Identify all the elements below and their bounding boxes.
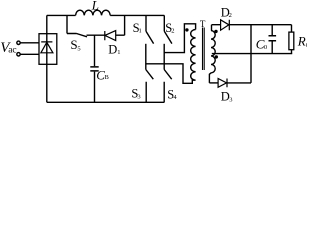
wire D1 to rail [116, 15, 125, 35]
wire C0 bottom lead [271, 41, 273, 53]
svg-text:2: 2 [171, 28, 174, 35]
wire top rail right [110, 14, 164, 16]
svg-text:3: 3 [137, 93, 140, 100]
svg-text:0: 0 [306, 42, 307, 49]
wire ac top [20, 42, 39, 44]
transformer core [203, 28, 205, 71]
switch S5 [67, 15, 87, 36]
wire bottom rail [47, 101, 165, 103]
wire Cb top lead [94, 35, 96, 66]
svg-text:1: 1 [139, 28, 142, 35]
bridge diode [41, 42, 53, 53]
svg-text:B: B [105, 74, 110, 81]
switch S4 [164, 70, 172, 103]
wire R0 top lead [291, 25, 293, 32]
wire node P to primary bottom [146, 64, 193, 84]
terminal top [17, 41, 20, 44]
wire node Q to primary top [164, 24, 195, 53]
svg-text:L: L [91, 0, 99, 13]
svg-text:T: T [200, 19, 206, 29]
switch S2 [164, 15, 172, 43]
diode D2 [221, 20, 230, 30]
svg-text:ac: ac [8, 46, 16, 56]
wire C0 top lead [271, 25, 273, 36]
diode D1 [105, 31, 116, 41]
transformer primary winding [191, 30, 196, 81]
svg-text:1: 1 [117, 49, 120, 56]
wire top rail left [47, 14, 76, 16]
wire Cb bottom lead [94, 72, 96, 103]
wire output top rail [212, 24, 292, 26]
resistor R0 [289, 32, 294, 50]
rectifier bridge box [39, 34, 57, 65]
wire leg2 mid [163, 44, 165, 70]
wire R0 bottom lead [291, 50, 293, 54]
dot primary [185, 28, 188, 31]
terminal bottom [17, 53, 20, 56]
capacitor Cb [90, 67, 98, 71]
diode D3 [218, 79, 227, 88]
capacitor C0 [269, 36, 277, 41]
switch S3 [146, 70, 154, 103]
svg-text:2: 2 [229, 12, 232, 19]
wire D3 output up to rail [227, 25, 251, 83]
wire node A [87, 34, 105, 36]
wire ac bottom [20, 53, 39, 55]
wire secondary bottom lead [208, 74, 210, 83]
svg-text:D: D [108, 43, 117, 57]
dot secondary top [214, 30, 217, 33]
svg-text:5: 5 [77, 45, 80, 52]
svg-text:3: 3 [229, 96, 232, 103]
svg-text:0: 0 [264, 44, 267, 51]
wire leg1 mid [145, 44, 147, 70]
transformer secondary winding [209, 25, 215, 74]
wire D3 input [209, 82, 218, 84]
wire bridge column [46, 15, 48, 102]
switch S1 [146, 15, 154, 43]
inductor L [76, 10, 111, 15]
svg-text:R: R [297, 34, 306, 49]
dot secondary bottom [215, 55, 218, 58]
wire output bottom line [212, 53, 292, 55]
